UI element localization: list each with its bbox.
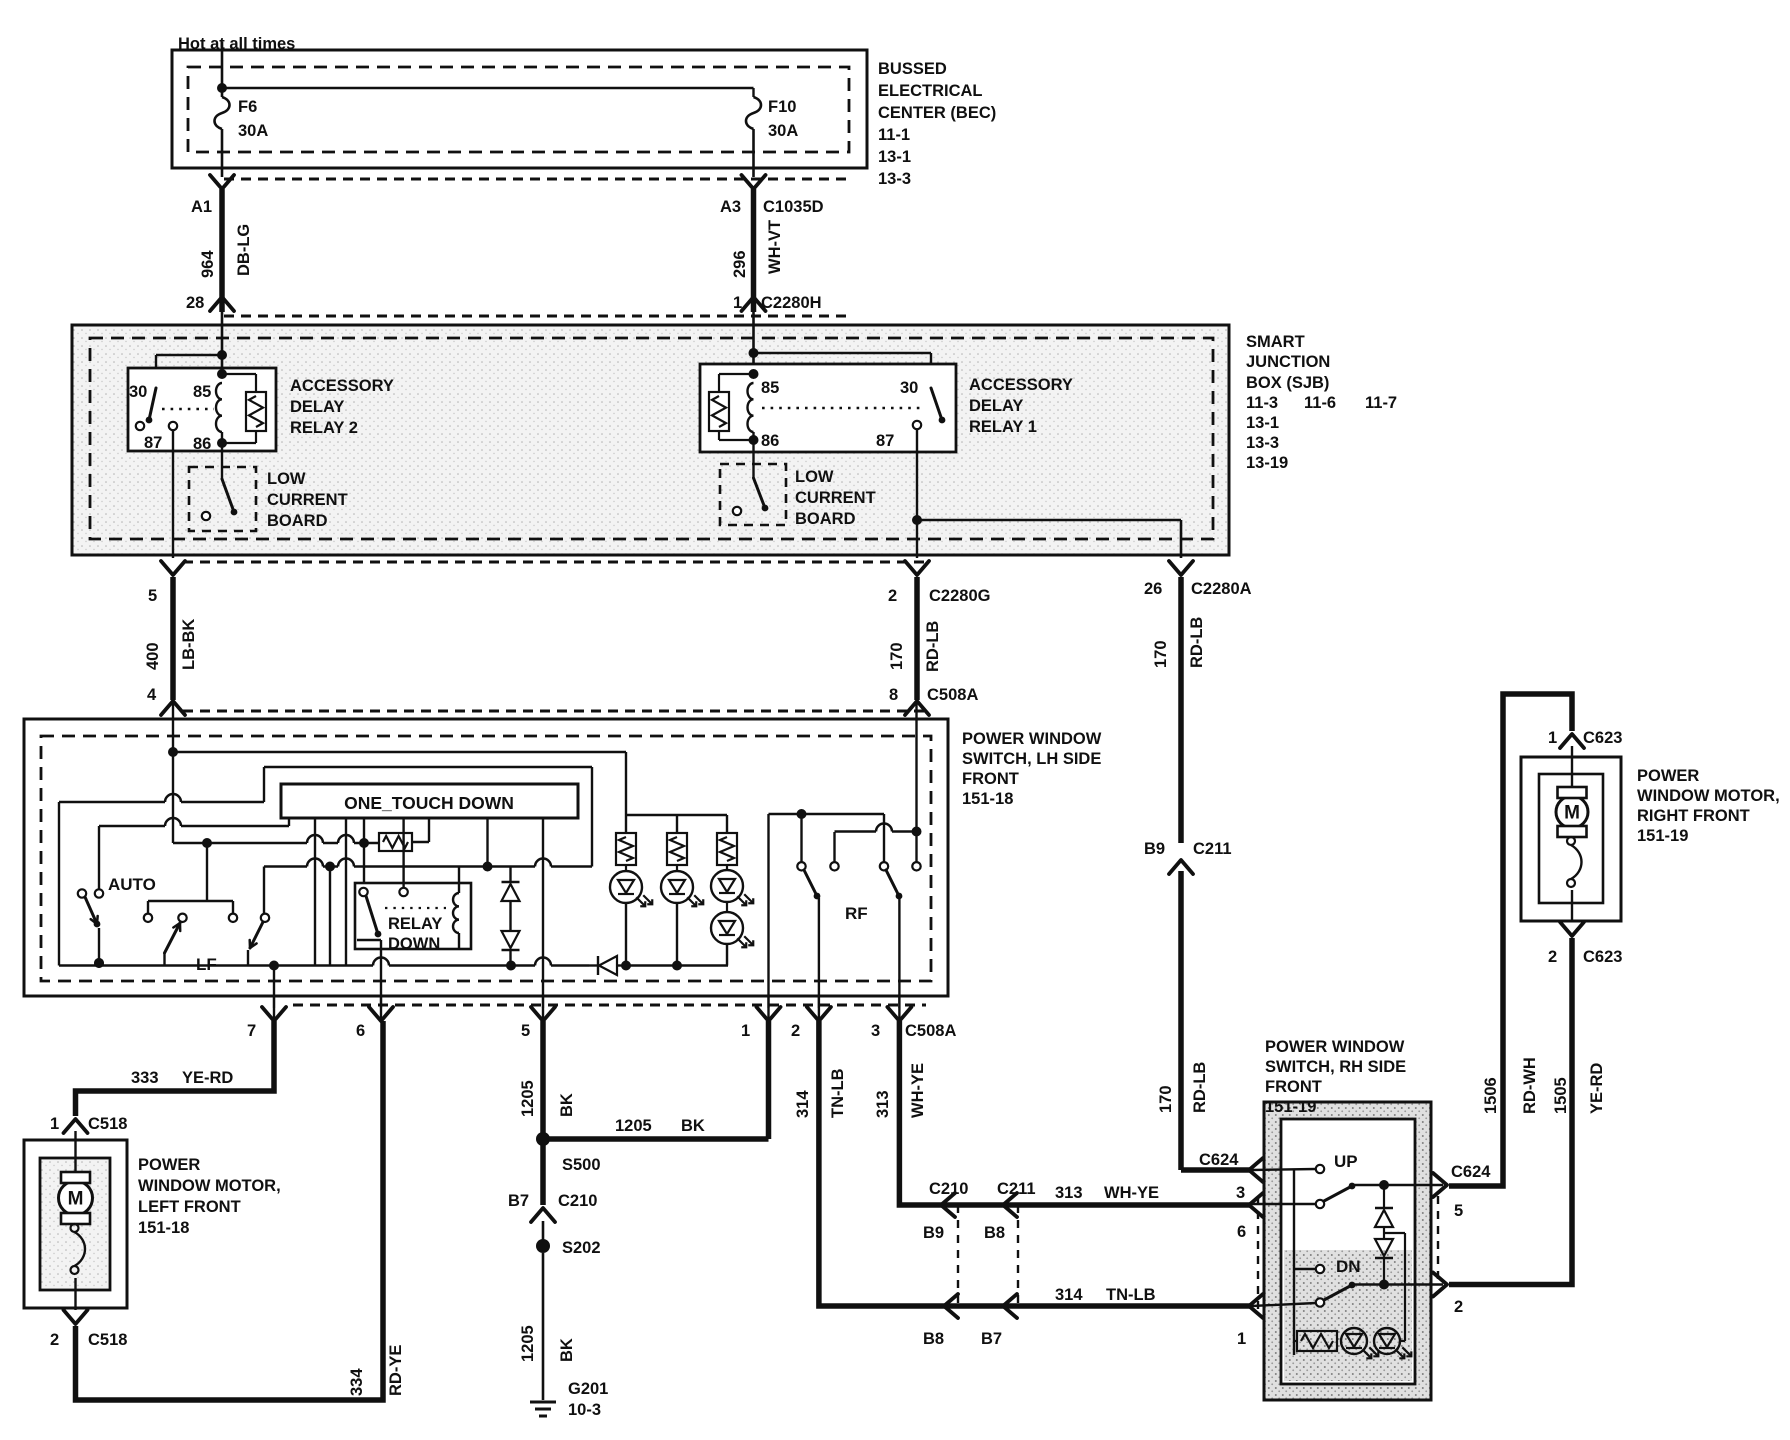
- svg-text:S500: S500: [562, 1156, 601, 1174]
- splice S202: [536, 1221, 601, 1257]
- svg-text:170: 170: [888, 642, 906, 670]
- svg-text:C518: C518: [88, 1115, 127, 1133]
- connector arrow into SJB pin 28: [210, 297, 234, 311]
- dashed boundary at RH switch right: [1437, 1196, 1439, 1285]
- svg-text:296: 296: [731, 250, 749, 278]
- relay 1 resistor: [709, 374, 754, 440]
- svg-text:BK: BK: [558, 1093, 576, 1117]
- label: POWER WINDOW SWITCH, RH SIDE FRONT 151-19: [1265, 1038, 1406, 1116]
- wire: hot feed into F6: [221, 42, 224, 97]
- svg-text:RELAY 2: RELAY 2: [290, 419, 358, 437]
- svg-text:CURRENT: CURRENT: [795, 489, 876, 507]
- svg-text:11-7: 11-7: [1365, 394, 1397, 412]
- connector arrow into SJB pin 1 C2280H: [742, 297, 766, 311]
- connector arrow into RH motor pin 1 C623: [1560, 734, 1584, 748]
- relay 1 low current board box: [720, 464, 786, 525]
- svg-text:C623: C623: [1583, 948, 1622, 966]
- svg-text:WINDOW MOTOR,: WINDOW MOTOR,: [138, 1177, 281, 1195]
- wire: feed down to relay rail: [172, 752, 174, 843]
- svg-text:1: 1: [741, 1022, 750, 1040]
- relay 2 contact dotted link: [162, 408, 214, 410]
- svg-text:RD-LB: RD-LB: [1188, 617, 1206, 668]
- wire: top rail to indicator feed: [173, 752, 626, 833]
- svg-text:ELECTRICAL: ELECTRICAL: [878, 82, 983, 100]
- wire: F6 output: [221, 129, 224, 177]
- label: RELAY DOWN: [388, 915, 442, 953]
- label: pin 26 / connector C2280A: [1144, 580, 1252, 598]
- relay 2 low current board box: [189, 467, 256, 531]
- svg-text:C1035D: C1035D: [763, 198, 824, 216]
- svg-text:7: 7: [247, 1022, 256, 1040]
- wire: relay 2 pin 87 to SJB exit 5: [172, 451, 174, 558]
- connector arrow out of BEC pin A1: [210, 175, 234, 189]
- svg-text:1506: 1506: [1482, 1077, 1500, 1114]
- LF switch 2: [248, 914, 269, 966]
- svg-text:M: M: [1564, 803, 1580, 824]
- svg-text:30: 30: [129, 383, 147, 401]
- svg-text:313: 313: [874, 1090, 892, 1118]
- relay 1 pin 85 label: [761, 379, 779, 397]
- wire: rail to exit 1: [767, 814, 769, 1020]
- svg-text:WINDOW MOTOR,: WINDOW MOTOR,: [1637, 787, 1780, 805]
- wire 1205 BK link to pin 1: [543, 1021, 769, 1139]
- relay 2 coil: [216, 369, 227, 448]
- label: pin 28: [186, 294, 204, 312]
- node: relay 1 feed junction: [749, 348, 932, 388]
- svg-text:11-3: 11-3: [1246, 394, 1278, 412]
- RH illumination resistor: [1294, 1331, 1337, 1351]
- RH switch 2 arm: [1324, 1282, 1355, 1300]
- wire 170 RD-LB (to C2280A): [1152, 577, 1206, 843]
- svg-text:RD-LB: RD-LB: [1191, 1062, 1209, 1113]
- connector arrows out pins 7 6 5 1 2 3: [262, 996, 911, 1021]
- svg-text:151-18: 151-18: [962, 790, 1013, 808]
- connector arrow out of LF motor pin 2 C518: [64, 1310, 88, 1324]
- svg-text:6: 6: [356, 1022, 365, 1040]
- svg-text:POWER: POWER: [138, 1156, 200, 1174]
- svg-text:YE-RD: YE-RD: [182, 1069, 233, 1087]
- connector arrow out of SJB pin 2 C2280G: [905, 561, 929, 575]
- wire rail R1 with hop: [59, 794, 264, 966]
- labels: C210 C211 3 6: [929, 1180, 1246, 1241]
- svg-text:DELAY: DELAY: [290, 398, 344, 416]
- RH motor M: [1556, 746, 1588, 922]
- LF motor M: [59, 1131, 93, 1310]
- label: Hot at all times: [178, 35, 295, 53]
- svg-text:RD-WH: RD-WH: [1521, 1057, 1539, 1114]
- svg-text:5: 5: [148, 587, 157, 605]
- RH rail: [1293, 1169, 1295, 1355]
- svg-text:B7: B7: [508, 1192, 529, 1210]
- wire: RH switch 2 to pin 2 out: [1352, 1280, 1443, 1290]
- label: pin 2 / connector C2280G: [888, 587, 990, 605]
- svg-text:964: 964: [199, 250, 217, 278]
- RF switch 2: [880, 814, 903, 1020]
- svg-text:170: 170: [1157, 1085, 1175, 1113]
- wire: F10 output: [752, 129, 755, 177]
- bottom rail right: [621, 944, 728, 971]
- svg-text:400: 400: [144, 642, 162, 670]
- wire 333 YE-RD: [76, 1021, 275, 1116]
- wire into accessory delay relay 2: [221, 312, 224, 374]
- svg-text:151-19: 151-19: [1265, 1098, 1316, 1116]
- svg-text:170: 170: [1152, 640, 1170, 668]
- svg-text:ACCESSORY: ACCESSORY: [969, 376, 1073, 394]
- connector arrow out C624 pin 5: [1433, 1163, 1491, 1220]
- label: SMART JUNCTION BOX (SJB): [1246, 333, 1397, 472]
- svg-text:11-1: 11-1: [878, 126, 910, 144]
- relay 2 pin 86 label: [193, 435, 211, 453]
- POWER WINDOW SWITCH RH SIDE FRONT box: [1264, 1102, 1431, 1400]
- svg-text:C210: C210: [558, 1192, 597, 1210]
- RH diode mid branch: [1384, 1233, 1405, 1341]
- relay 2 pin 30 label: [129, 383, 147, 401]
- label: POWER WINDOW MOTOR, RIGHT FRONT 151-19: [1637, 767, 1780, 845]
- blocking diode horizontal: [589, 956, 626, 975]
- RH diode chain: [1375, 1180, 1393, 1284]
- svg-text:1505: 1505: [1552, 1077, 1570, 1114]
- wire: pin 8 feed: [912, 701, 920, 871]
- svg-text:RELAY: RELAY: [388, 915, 442, 933]
- svg-text:RELAY 1: RELAY 1: [969, 418, 1037, 436]
- svg-text:314: 314: [1055, 1286, 1083, 1304]
- relay 2 pin 85 label: [193, 383, 211, 401]
- svg-text:C624: C624: [1199, 1151, 1239, 1169]
- LF switch 1: [165, 914, 187, 966]
- wire: pin 4 feed into switch: [172, 701, 174, 752]
- RH switch 1 common: [1252, 1200, 1324, 1208]
- svg-text:1: 1: [1548, 729, 1557, 747]
- POWER WINDOW MOTOR LEFT FRONT box: [24, 1140, 127, 1308]
- AUTO switch: [78, 875, 156, 968]
- label: pin A1: [191, 198, 212, 216]
- svg-text:POWER: POWER: [1637, 767, 1699, 785]
- illumination resistor 2: [667, 833, 687, 865]
- wire: OTD stub to relay-down coil feed: [486, 818, 488, 867]
- wire 170 RD-LB (to C508A): [888, 577, 942, 700]
- label: LOW CURRENT BOARD (relay 1): [795, 468, 876, 528]
- connector arrow out of SJB pin 5: [161, 561, 185, 575]
- svg-text:C623: C623: [1583, 729, 1622, 747]
- wire: exit 7 drop: [273, 966, 275, 1021]
- relay 2 switch arm pin 30: [136, 388, 156, 430]
- svg-text:13-1: 13-1: [878, 148, 911, 166]
- connector arrows on WH-YE wire C210 C211: [941, 1193, 1263, 1217]
- svg-text:DELAY: DELAY: [969, 397, 1023, 415]
- node: relay 2 feed junction: [156, 350, 227, 388]
- relay 1 pin 30 label: [900, 379, 918, 397]
- wire: R4 junction to bottom rail: [329, 867, 331, 966]
- svg-text:BOARD: BOARD: [267, 512, 328, 530]
- svg-text:30A: 30A: [768, 122, 798, 140]
- svg-text:2: 2: [888, 587, 897, 605]
- svg-text:C518: C518: [88, 1331, 127, 1349]
- wire rail R4 with hops: [264, 859, 592, 915]
- relay 1 pin 86 label: [761, 432, 779, 450]
- wire 964 DB-LG: [199, 189, 253, 312]
- SMART JUNCTION BOX (SJB) box: [72, 325, 1229, 555]
- POWER WINDOW SWITCH LH SIDE FRONT box: [24, 719, 948, 996]
- dashed connector boundary C210-C211: [958, 1205, 1018, 1306]
- svg-text:87: 87: [876, 432, 894, 450]
- RELAY DOWN box: [355, 883, 471, 949]
- svg-text:86: 86: [193, 435, 211, 453]
- connector arrow out of RH motor pin 2 C623: [1560, 922, 1584, 936]
- svg-text:3: 3: [1236, 1184, 1245, 1202]
- svg-text:RD-LB: RD-LB: [924, 621, 942, 672]
- label: pin 5: [148, 587, 157, 605]
- relay down coil: [453, 867, 459, 949]
- RH LED 1: [1341, 1328, 1378, 1358]
- svg-text:ACCESSORY: ACCESSORY: [290, 377, 394, 395]
- svg-text:13-3: 13-3: [878, 170, 911, 188]
- ground G201: [530, 1380, 608, 1419]
- svg-text:WH-VT: WH-VT: [766, 220, 784, 274]
- svg-text:C508A: C508A: [927, 686, 978, 704]
- relay down dotted link: [385, 907, 446, 909]
- label: LF: [196, 955, 217, 974]
- label: pin 1 / C623: [1548, 729, 1622, 747]
- fuse F6 30A: [215, 97, 269, 140]
- svg-text:YE-RD: YE-RD: [1588, 1063, 1606, 1114]
- svg-text:C2280H: C2280H: [761, 294, 822, 312]
- svg-text:B9: B9: [1144, 840, 1165, 858]
- svg-text:WH-YE: WH-YE: [1104, 1184, 1159, 1202]
- RF contact mid: [830, 832, 838, 871]
- node: SJB output junction: [912, 515, 1181, 558]
- svg-text:DN: DN: [1336, 1257, 1361, 1276]
- svg-text:DB-LG: DB-LG: [235, 224, 253, 276]
- connector arrow into switch pin 8 C508A: [905, 701, 929, 715]
- svg-text:2: 2: [1548, 948, 1557, 966]
- svg-text:A1: A1: [191, 198, 212, 216]
- svg-text:13-3: 13-3: [1246, 434, 1279, 452]
- svg-text:B8: B8: [984, 1224, 1005, 1242]
- node: feed junction: [168, 747, 178, 757]
- svg-text:4: 4: [147, 686, 157, 704]
- POWER WINDOW MOTOR RIGHT FRONT box: [1521, 757, 1621, 921]
- svg-text:C210: C210: [929, 1180, 968, 1198]
- svg-text:ONE_TOUCH DOWN: ONE_TOUCH DOWN: [344, 793, 514, 813]
- label: pin 2 / C623: [1548, 948, 1622, 966]
- svg-text:SWITCH, RH SIDE: SWITCH, RH SIDE: [1265, 1058, 1406, 1076]
- svg-text:2: 2: [1454, 1298, 1463, 1316]
- svg-text:87: 87: [144, 434, 162, 452]
- relay 1 coil: [748, 369, 759, 445]
- svg-text:B9: B9: [923, 1224, 944, 1242]
- RH UP contact: [1252, 1152, 1358, 1173]
- connector arrow into LF motor pin 1 C518: [64, 1119, 88, 1133]
- relay 1 low current board switch: [733, 440, 769, 515]
- wire 314 TN-LB: [794, 1021, 1252, 1306]
- connector arrow into switch pin 4: [161, 701, 185, 715]
- wire 400 LB-BK: [144, 577, 198, 700]
- svg-text:B8: B8: [923, 1330, 944, 1348]
- LED indicator 1: [610, 865, 652, 966]
- svg-text:SMART: SMART: [1246, 333, 1305, 351]
- svg-text:FRONT: FRONT: [1265, 1078, 1322, 1096]
- label: ACCESSORY DELAY RELAY 2: [290, 377, 394, 437]
- svg-text:RD-YE: RD-YE: [387, 1345, 405, 1396]
- svg-text:1205: 1205: [615, 1117, 652, 1135]
- svg-text:G201: G201: [568, 1380, 608, 1398]
- svg-text:FRONT: FRONT: [962, 770, 1019, 788]
- svg-text:86: 86: [761, 432, 779, 450]
- svg-text:6: 6: [1237, 1223, 1246, 1241]
- label: LOW CURRENT BOARD (relay 2): [267, 470, 348, 530]
- wire into accessory delay relay 1: [752, 312, 755, 374]
- svg-text:TN-LB: TN-LB: [829, 1068, 847, 1118]
- wire 296 WH-VT: [731, 189, 784, 312]
- svg-text:B7: B7: [981, 1330, 1002, 1348]
- label: pin A3 / connector C1035D: [720, 198, 824, 216]
- label: POWER WINDOW SWITCH, LH SIDE FRONT 151-18: [962, 730, 1102, 808]
- svg-text:1: 1: [1237, 1330, 1246, 1348]
- illumination resistor 1: [616, 833, 636, 865]
- RH switch 1 arm: [1324, 1183, 1355, 1201]
- LED indicator 2: [661, 865, 703, 966]
- svg-text:DOWN: DOWN: [388, 935, 440, 953]
- svg-text:LEFT FRONT: LEFT FRONT: [138, 1198, 241, 1216]
- svg-text:8: 8: [889, 686, 898, 704]
- labels: B8 B7 1: [923, 1330, 1246, 1348]
- connector arrow out of SJB pin 26 C2280A: [1169, 561, 1193, 575]
- svg-text:C211: C211: [1193, 840, 1232, 858]
- svg-text:A3: A3: [720, 198, 741, 216]
- relay down contact A: [359, 888, 367, 896]
- wire: junction to SJB exit 2: [916, 520, 918, 558]
- wire 334 RD-YE: [76, 1021, 406, 1400]
- label: pin 1 / C518: [50, 1115, 127, 1133]
- BUSSED ELECTRICAL CENTER (BEC) box: [172, 50, 867, 168]
- svg-text:11-6: 11-6: [1304, 394, 1336, 412]
- label: pin 8 / connector C508A: [889, 686, 978, 704]
- relay ACCESSORY DELAY RELAY 1 box: [700, 364, 956, 452]
- svg-text:1: 1: [733, 294, 742, 312]
- svg-text:2: 2: [50, 1331, 59, 1349]
- relay 1 pin 87 contact wire: [916, 429, 918, 520]
- svg-text:10-3: 10-3: [568, 1401, 601, 1419]
- svg-text:334: 334: [348, 1368, 366, 1396]
- svg-text:314: 314: [794, 1090, 812, 1118]
- relay 2 resistor: [222, 374, 266, 443]
- svg-text:CENTER (BEC): CENTER (BEC): [878, 104, 996, 122]
- connector arrow out of BEC pin A3: [742, 175, 766, 189]
- label: BUSSED ELECTRICAL CENTER (BEC): [878, 60, 996, 188]
- diode pair column: [502, 867, 520, 966]
- wire 1505 YE-RD: [1449, 938, 1606, 1285]
- svg-text:JUNCTION: JUNCTION: [1246, 353, 1330, 371]
- wire: OTD stub to down contact: [363, 818, 365, 888]
- wire 1205 BK to ground: [519, 1253, 576, 1400]
- RH switch 2 common: [1252, 1298, 1324, 1306]
- svg-text:5: 5: [1454, 1202, 1463, 1220]
- svg-text:CURRENT: CURRENT: [267, 491, 348, 509]
- svg-text:TN-LB: TN-LB: [1106, 1286, 1156, 1304]
- svg-text:BUSSED: BUSSED: [878, 60, 947, 78]
- LF tee bar: [144, 843, 237, 922]
- label: pin 2 / C518: [50, 1331, 127, 1349]
- relay 2 pin 87 label: [144, 434, 162, 452]
- RF rail b with hop: [835, 824, 922, 837]
- svg-text:UP: UP: [1334, 1152, 1358, 1171]
- svg-text:C624: C624: [1451, 1163, 1491, 1181]
- svg-text:POWER WINDOW: POWER WINDOW: [962, 730, 1102, 748]
- connector arrow into RH switch C624: [1199, 1151, 1263, 1182]
- svg-text:BOARD: BOARD: [795, 510, 856, 528]
- RH DN contact: [1294, 1257, 1361, 1276]
- svg-text:333: 333: [131, 1069, 159, 1087]
- svg-text:151-19: 151-19: [1637, 827, 1688, 845]
- wire rail R3 with hops: [173, 835, 379, 848]
- svg-text:28: 28: [186, 294, 204, 312]
- svg-text:C211: C211: [997, 1180, 1036, 1198]
- svg-text:313: 313: [1055, 1184, 1083, 1202]
- svg-text:85: 85: [193, 383, 211, 401]
- svg-text:AUTO: AUTO: [108, 875, 156, 894]
- svg-text:30: 30: [900, 379, 918, 397]
- svg-text:BK: BK: [558, 1338, 576, 1362]
- svg-text:BOX (SJB): BOX (SJB): [1246, 374, 1329, 392]
- connector arrow B9 C211: [1144, 840, 1232, 874]
- relay 1 pin 87 label: [876, 432, 894, 450]
- svg-text:1205: 1205: [519, 1080, 537, 1117]
- RH LED 2: [1374, 1328, 1411, 1358]
- bottom rail left with hops: [59, 958, 589, 971]
- svg-text:BK: BK: [681, 1117, 705, 1135]
- svg-text:2: 2: [791, 1022, 800, 1040]
- indicator feed rail: [626, 815, 727, 833]
- relay down contact B: [399, 818, 407, 896]
- svg-text:M: M: [68, 1189, 84, 1210]
- svg-text:WH-YE: WH-YE: [909, 1063, 927, 1118]
- svg-text:F6: F6: [238, 98, 257, 116]
- svg-text:26: 26: [1144, 580, 1162, 598]
- svg-text:30A: 30A: [238, 122, 268, 140]
- wire: RH switch to C624 out: [1352, 1184, 1443, 1186]
- relay 2 pin 87 contact: [169, 422, 177, 451]
- svg-text:5: 5: [521, 1022, 530, 1040]
- svg-text:SWITCH, LH SIDE: SWITCH, LH SIDE: [962, 750, 1101, 768]
- svg-text:C2280A: C2280A: [1191, 580, 1252, 598]
- dashed connector line C508A bottom: [293, 1004, 926, 1007]
- node: fuse bus junction: [217, 83, 754, 97]
- svg-text:S202: S202: [562, 1239, 601, 1257]
- svg-text:LB-BK: LB-BK: [180, 619, 198, 670]
- svg-text:POWER WINDOW: POWER WINDOW: [1265, 1038, 1405, 1056]
- svg-text:LOW: LOW: [267, 470, 306, 488]
- svg-text:LOW: LOW: [795, 468, 834, 486]
- RF switch rail: [769, 809, 885, 819]
- ONE_TOUCH DOWN box: [281, 784, 578, 818]
- wire: S500 to C210: [540, 1139, 546, 1205]
- svg-text:1205: 1205: [519, 1325, 537, 1362]
- connector arrows on TN-LB wire: [944, 1294, 1263, 1318]
- dashed harness boundary below SJB: [183, 562, 930, 711]
- fuse F10 30A: [746, 97, 798, 140]
- relay 1 switch arm pin 30: [913, 388, 946, 429]
- label: pin 4: [147, 686, 157, 704]
- svg-text:C2280G: C2280G: [929, 587, 990, 605]
- wire 313 WH-YE: [874, 1021, 1252, 1205]
- wire: OTD stub b: [345, 818, 347, 966]
- wire 1205 BK (pin 5 drop): [519, 1021, 576, 1139]
- label: RF: [845, 904, 868, 923]
- RF switch 1: [797, 814, 820, 1020]
- svg-text:RIGHT FRONT: RIGHT FRONT: [1637, 807, 1750, 825]
- svg-text:1: 1: [50, 1115, 59, 1133]
- labels: pins 7 6 5 1 2 3 C508A: [247, 1022, 956, 1040]
